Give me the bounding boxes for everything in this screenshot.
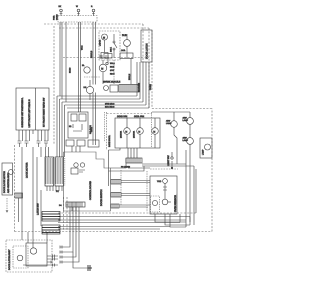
relay coil circle A: [84, 67, 90, 73]
svg-text:BK: BK: [59, 5, 62, 8]
svg-text:DOOR LATCH ASSY: DOOR LATCH ASSY: [8, 249, 11, 270]
svg-text:BAKE BROIL: BAKE BROIL: [108, 134, 111, 147]
strip circle: [104, 86, 109, 91]
mid corner: [109, 148, 121, 150]
oven dashed top border: [152, 108, 212, 110]
conv motor 2: [137, 128, 144, 135]
svg-text:LAMP: LAMP: [183, 139, 189, 142]
latch out ticks: [51, 255, 55, 267]
latch unit wire in 2: [32, 240, 34, 248]
svg-text:M: M: [153, 130, 155, 133]
terminal L1: [60, 9, 63, 12]
bus A wire 4: [58, 214, 180, 223]
svg-text:GY-7: GY-7: [110, 69, 114, 72]
svg-text:W-LA: W-LA: [110, 62, 115, 65]
svg-text:DLB: DLB: [122, 34, 127, 37]
lamp small box: [200, 138, 212, 158]
lamp mid: [171, 121, 178, 128]
connector P5: [111, 193, 121, 198]
svg-text:SPARK MODULE: SPARK MODULE: [103, 81, 121, 84]
connector P6 ticks: [111, 204, 119, 208]
svg-text:TCO: TCO: [157, 180, 162, 183]
conv motor 1: [124, 128, 131, 135]
lamp right wire: [189, 112, 191, 222]
console dashed border right upper: [142, 24, 144, 62]
connector P4: [111, 180, 121, 185]
wire left 4: [45, 147, 47, 157]
svg-text:M: M: [103, 36, 105, 39]
door latch assembly dashed box: [99, 31, 120, 60]
rect tick: [107, 58, 109, 63]
wire left 3: [40, 147, 42, 157]
svg-text:LAMP: LAMP: [183, 119, 189, 122]
wire N pair: [79, 22, 81, 112]
bus wire 5: [67, 62, 149, 108]
latch unit inner dashed box: [13, 246, 28, 268]
spade connector 4: [44, 141, 48, 147]
wire L2 pair: [93, 22, 96, 84]
svg-text:AND SWITCH ASSY: AND SWITCH ASSY: [7, 172, 10, 193]
P4 out wires: [121, 181, 150, 183]
lock wire down: [18, 198, 20, 222]
spade connector 2: [25, 141, 29, 147]
wire label col B: [130, 58, 132, 84]
sensor sub dashed box: [151, 196, 160, 212]
small box pair A: [66, 140, 74, 146]
dotted wire right of relay: [104, 112, 106, 142]
relay wires: [126, 34, 128, 58]
ribbon wire 1: [60, 207, 70, 247]
pin numbers column: [64, 158, 66, 186]
ground clip: [88, 265, 92, 271]
indicator wires: [89, 80, 91, 100]
sensor circle: [162, 199, 168, 205]
terminal board box: [16, 88, 49, 130]
bus left corners down: [57, 96, 65, 157]
svg-text:RELAY K1: RELAY K1: [89, 125, 92, 134]
P5 out wires: [121, 194, 150, 196]
relay sub box 1: [71, 114, 77, 121]
wire L1 pair: [60, 22, 62, 99]
wire label col A: [113, 60, 115, 84]
svg-text:BK-9: BK-9: [110, 66, 114, 69]
motor wires vertical: [127, 118, 155, 148]
latch cam switch box: [101, 53, 108, 59]
svg-text:P3 CONN: P3 CONN: [121, 166, 130, 169]
cabinet dashed right border: [211, 109, 213, 232]
dashed mid wire: [120, 170, 122, 206]
lamp drop wires: [177, 150, 186, 227]
lock dashed wire: [6, 198, 8, 210]
lamp right bottom: [187, 138, 194, 145]
oven cavity dashed edge: [151, 112, 153, 148]
cabinet dashed left border: [53, 26, 55, 145]
latch unit switch circle 2: [30, 248, 36, 254]
latch unit wire in 3: [46, 232, 48, 243]
control board outline: [64, 152, 111, 211]
svg-text:BK-DLB: BK-DLB: [90, 50, 93, 58]
comb bottom ticks: [47, 186, 62, 191]
svg-text:LAMP: LAMP: [202, 149, 205, 155]
lamp feed wire: [152, 111, 190, 113]
tick connectors row: [100, 55, 108, 59]
ribbon feed wires: [72, 202, 76, 211]
latch motor wire: [104, 40, 106, 53]
bus wire 3: [62, 62, 143, 102]
svg-text:DOOR SWITCH: DOOR SWITCH: [100, 189, 103, 206]
bus connector comb lower: [42, 225, 60, 234]
svg-text:LAMP: LAMP: [166, 122, 172, 125]
top cross dashed line: [44, 23, 57, 25]
lamp wire mid: [174, 112, 177, 152]
sensor wires down: [155, 214, 190, 227]
svg-text:SW A: SW A: [110, 47, 113, 52]
svg-text:LATCH: LATCH: [99, 39, 102, 46]
relay marks: [73, 124, 82, 131]
fan box drop wires: [128, 148, 137, 158]
board inner marks: [79, 170, 85, 172]
bus A wire 2: [58, 216, 190, 218]
oven dashed left border: [151, 30, 153, 109]
small rect top mid: [104, 54, 112, 59]
lamp small circle: [205, 144, 211, 150]
bus A wire 1: [58, 212, 196, 214]
bus connector comb upper: [42, 212, 60, 222]
membrane connector strip: [119, 85, 139, 93]
cooling fan motor: [99, 64, 107, 72]
fan zone dashed edge: [106, 112, 108, 150]
lamp right top: [187, 118, 194, 125]
oven dashed wire: [150, 168, 178, 170]
latch motor M: [102, 34, 108, 40]
board wires down: [19, 134, 48, 141]
rect tick circle: [106, 62, 108, 64]
ribbon wire 2: [60, 207, 73, 252]
svg-text:LOCK MOTOR: LOCK MOTOR: [26, 162, 29, 178]
small box C: [88, 140, 99, 147]
svg-text:RT FRONT RIGHT REAR SW: RT FRONT RIGHT REAR SW: [43, 97, 46, 127]
sensor sub circle: [152, 200, 157, 205]
door latch unit dashed box: [6, 240, 52, 272]
wire left 2: [32, 147, 34, 240]
svg-text:MOTOR: MOTOR: [120, 130, 123, 138]
lock connector block: [15, 193, 23, 198]
light switch: [171, 152, 173, 168]
small box pair B: [77, 140, 85, 146]
dashed sensor wire: [146, 171, 148, 212]
bus wire 2: [60, 62, 141, 99]
latch switch contacts: [113, 41, 115, 43]
ribbon stub ticks: [60, 246, 62, 264]
board inner circle 2: [80, 163, 84, 167]
svg-text:M: M: [101, 68, 103, 71]
svg-text:BK-LM: BK-LM: [128, 74, 131, 80]
junction dot: [171, 167, 173, 169]
svg-text:MOTOR: MOTOR: [133, 130, 136, 138]
svg-text:K2: K2: [69, 125, 71, 128]
svg-text:COOL FAN: COOL FAN: [134, 115, 145, 118]
vert line mid: [108, 150, 110, 186]
svg-text:LEFT FRONT LEFT REAR S: LEFT FRONT LEFT REAR S: [28, 99, 31, 128]
svg-text:W-14: W-14: [81, 46, 84, 50]
latch wire to switch: [113, 34, 115, 58]
P3 out corner: [109, 166, 145, 171]
connector P9 dashed box: [58, 16, 97, 23]
svg-text:CONTROL BOARD: CONTROL BOARD: [89, 181, 92, 200]
board inner circle 1: [74, 163, 78, 167]
P3 out wires: [111, 158, 195, 168]
lock wire arrow: [6, 210, 8, 212]
ground wire: [73, 252, 88, 268]
ribbon wire 3: [60, 207, 76, 257]
sensor box: [150, 176, 177, 214]
svg-text:DOOR LOCK MOTOR: DOOR LOCK MOTOR: [3, 171, 6, 193]
connector P3: [126, 158, 142, 163]
svg-text:BL: BL: [82, 64, 85, 67]
console dashed border top: [57, 23, 143, 25]
inner dashed border top: [59, 27, 149, 29]
terminal board divider: [35, 88, 37, 130]
svg-text:RD-5: RD-5: [110, 73, 114, 76]
ribbon connector bar: [66, 202, 85, 207]
indicator circle: [86, 86, 93, 93]
bus wire 1: [57, 62, 137, 96]
strip small rect: [110, 85, 118, 92]
relay sub box 2: [79, 114, 86, 121]
bus right risers: [190, 166, 196, 225]
inner dashed border right: [148, 28, 150, 108]
spade connector 3: [37, 141, 41, 147]
lock switch circle: [8, 170, 13, 175]
bus B wire 1: [58, 226, 170, 228]
bus wire 4: [65, 62, 147, 105]
svg-text:BK-16: BK-16: [69, 68, 72, 73]
fan box: [115, 118, 160, 148]
wire drops center: [93, 83, 96, 86]
svg-text:DOOR LATCH: DOOR LATCH: [146, 43, 149, 59]
relay box: [68, 112, 88, 138]
svg-text:CONV FAN: CONV FAN: [117, 115, 128, 118]
svg-text:M: M: [125, 130, 127, 133]
latch unit wire in 1: [27, 232, 29, 243]
cabinet dashed bottom border: [15, 231, 213, 233]
partition dashed pair: [64, 197, 68, 231]
wire left 6: [40, 190, 42, 226]
svg-text:P4: P4: [59, 204, 62, 207]
svg-text:M: M: [138, 130, 140, 133]
small relay rect: [120, 53, 133, 59]
latch unit inner box 2: [26, 243, 47, 266]
bus B wire 2: [58, 228, 160, 230]
control connector comb right: [55, 157, 64, 186]
control connector comb left: [45, 157, 54, 186]
fan zone dashed top: [107, 113, 153, 115]
thermal fuse chain: [163, 184, 167, 200]
fan wires: [102, 60, 104, 84]
latch unit switch circle 1: [17, 255, 23, 261]
terminal N: [77, 9, 80, 12]
wire left 4b: [48, 147, 50, 157]
P6 out wires: [119, 205, 150, 207]
svg-text:PWR: PWR: [53, 15, 56, 20]
svg-text:LIGHT SW: LIGHT SW: [167, 155, 170, 166]
svg-text:OVEN SENSOR: OVEN SENSOR: [174, 195, 177, 212]
relay drop wires: [72, 146, 80, 152]
latch unit wires out: [23, 256, 58, 265]
console bottom dashed border: [63, 57, 149, 59]
wire left 1: [21, 147, 23, 240]
svg-text:W: W: [76, 5, 78, 8]
door latch relay DLB: [124, 40, 131, 47]
spade connector 1: [18, 141, 22, 147]
board pins: [19, 130, 48, 134]
svg-text:COIL: COIL: [121, 49, 125, 52]
lock switch box: [2, 163, 13, 195]
wire drops to relay: [93, 93, 96, 146]
bus A wire 3: [58, 219, 186, 221]
svg-text:R: R: [91, 5, 93, 8]
thermal fuse circle: [163, 179, 168, 184]
terminal L2: [92, 9, 95, 12]
wire left 5: [36, 157, 38, 212]
wire N single: [65, 22, 67, 102]
svg-text:SURFACE UNIT SWITCHES L: SURFACE UNIT SWITCHES L: [21, 97, 24, 128]
ribbon wire 4: [60, 207, 79, 262]
cabinet dashed left border lower: [14, 145, 16, 232]
sensor tick: [168, 201, 171, 203]
conv motor 3: [152, 128, 159, 135]
board inner box: [71, 168, 78, 174]
latch label box: [141, 30, 152, 62]
dashed link: [84, 76, 100, 78]
